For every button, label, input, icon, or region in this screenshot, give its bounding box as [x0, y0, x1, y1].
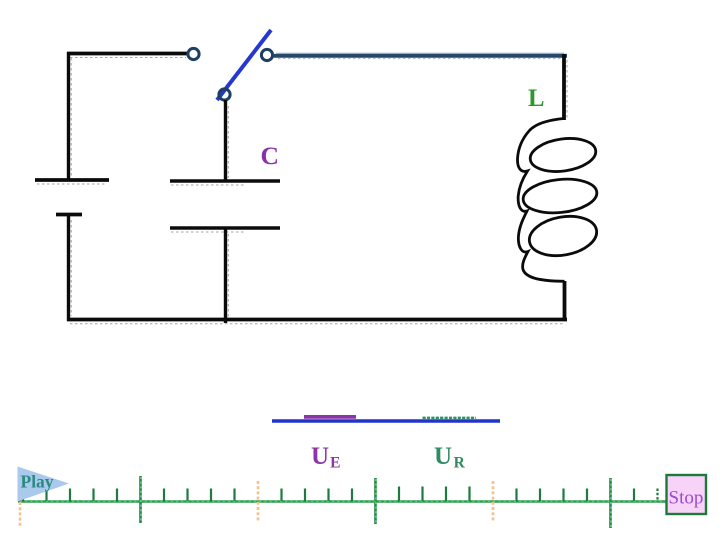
inductor L coil: loop 1 (top)	[528, 135, 598, 176]
timeline axis (green)	[18, 500, 667, 503]
inductor L coil: left connector squiggle	[517, 119, 564, 282]
timeline axis texture (light dashes)	[20, 500, 665, 502]
timeline major tick 1 (green, tall)	[139, 476, 142, 523]
timeline major tick 3 (green, tall)	[609, 478, 612, 528]
svg-text:C: C	[261, 141, 279, 170]
wire: bottom horizontal (battery to inductor)	[67, 320, 567, 324]
wire: switch pole down to capacitor top plate	[226, 100, 229, 181]
timeline major tick 2 (green, tall)	[374, 478, 377, 524]
legend: UE sample segment (purple)	[304, 415, 356, 419]
wire: inductor top lead (vertical)	[564, 54, 567, 120]
timeline major tick texture (light dashes)	[141, 477, 611, 527]
capacitor C top plate	[170, 181, 280, 185]
wire: top-left horizontal (battery to switch left contact)	[67, 54, 188, 58]
timeline minor ticks (green)	[23, 487, 658, 502]
legend: blue baseline	[272, 419, 500, 423]
timeline orange dashed tick 2	[492, 481, 495, 521]
svg-text:UE: UE	[311, 443, 340, 472]
stop button (pink box, green border)	[667, 475, 707, 514]
svg-text:L: L	[528, 85, 545, 112]
legend: UR sample segment (green, textured)	[423, 417, 477, 420]
wire: left vertical (battery top lead)	[69, 52, 72, 179]
svg-text:Stop: Stop	[669, 488, 704, 509]
timeline start marker (orange dashed, below axis)	[19, 502, 22, 526]
play button (light blue triangle)	[18, 467, 70, 502]
wire: battery bottom lead	[69, 215, 72, 321]
timeline orange dashed tick 1	[257, 481, 260, 521]
node: switch pole contact circle	[219, 89, 230, 100]
svg-text:UR: UR	[434, 443, 466, 472]
switch S blade (open, blue)	[217, 30, 271, 100]
wire: inductor bottom lead (vertical)	[563, 281, 567, 321]
node: switch right contact circle	[261, 49, 272, 60]
inductor L coil: loop 2 (middle)	[521, 176, 598, 217]
node: switch left contact circle	[188, 48, 199, 59]
capacitor C bottom plate	[170, 228, 280, 232]
inductor L coil: loop 3 (bottom)	[526, 211, 600, 260]
wire: top right horizontal (switch to inductor, dark blue)	[274, 53, 568, 58]
svg-text:Play: Play	[21, 472, 54, 492]
wire: capacitor bottom lead	[226, 229, 229, 323]
battery positive plate (long)	[35, 180, 109, 184]
battery negative plate (short)	[56, 213, 82, 217]
